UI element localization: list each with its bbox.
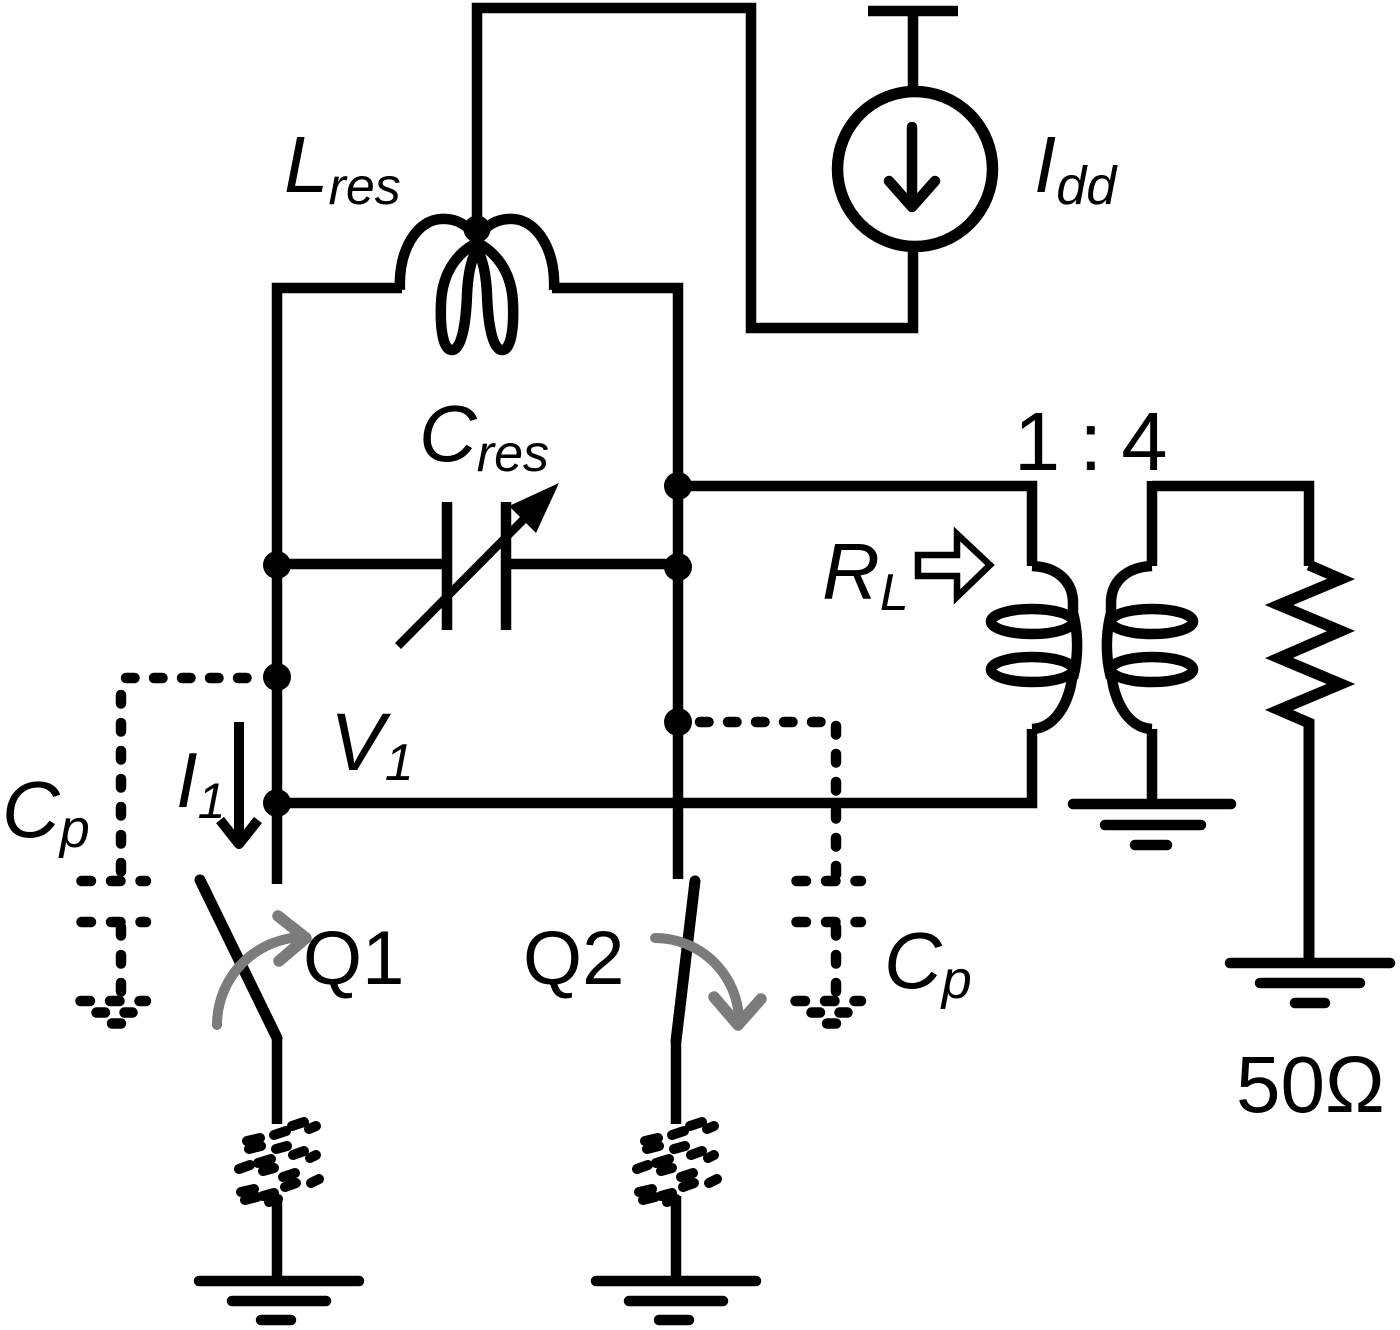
svg-text:1 : 4: 1 : 4: [1014, 395, 1166, 488]
svg-text:50Ω: 50Ω: [1236, 1040, 1385, 1129]
svg-text:Q1: Q1: [303, 916, 404, 1001]
svg-text:Q2: Q2: [523, 916, 624, 1001]
